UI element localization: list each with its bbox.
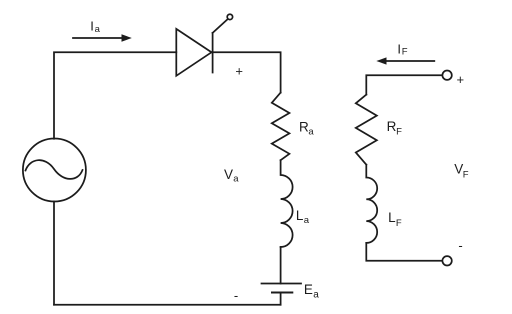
svg-text:a: a [313,290,319,301]
svg-text:-: - [234,288,238,303]
label RF [387,119,403,138]
svg-text:a: a [95,24,101,35]
label VF [454,162,469,181]
wire: La to battery positive [280,247,282,284]
svg-text:E: E [304,282,313,297]
resistor Ra [272,93,290,161]
thyristor Q1 [176,19,227,76]
battery Ea [262,284,302,293]
arrow IF [376,57,434,64]
svg-text:L: L [388,210,396,225]
resistor RF [356,95,377,165]
svg-text:+: + [457,72,465,87]
wire: bottom return [54,304,281,306]
wire: battery negative to bottom wire [280,293,282,305]
label La [296,208,310,226]
svg-text:I: I [90,18,94,33]
arrow Ia [73,34,132,41]
label IF [397,41,407,57]
wire: thyristor cathode to Ra top [212,52,281,92]
svg-text:L: L [296,208,304,223]
svg-text:a: a [233,174,239,185]
label LF [388,210,402,229]
inductor LF [366,165,377,243]
label Va [224,167,239,185]
svg-text:a: a [304,215,310,226]
wire: AC source bottom to bottom-left corner [53,202,55,305]
wire: field bottom [366,243,442,261]
svg-text:R: R [387,119,397,134]
svg-text:F: F [396,127,402,138]
inductor La [281,160,293,247]
svg-text:F: F [402,47,408,58]
svg-text:F: F [463,169,469,180]
ac source [23,139,86,202]
svg-text:-: - [458,238,462,253]
gate terminal [227,14,232,19]
svg-text:V: V [224,167,233,182]
terminal - field [442,256,451,265]
svg-text:+: + [235,63,243,78]
svg-text:I: I [397,41,401,56]
terminal + field [442,71,451,80]
label Ea [304,282,319,300]
label Ia [90,18,100,34]
svg-text:a: a [308,127,314,138]
wire: field top [366,75,442,94]
svg-text:F: F [396,218,402,229]
label Ra [299,120,314,138]
wire: AC source top to thyristor anode [54,52,176,138]
